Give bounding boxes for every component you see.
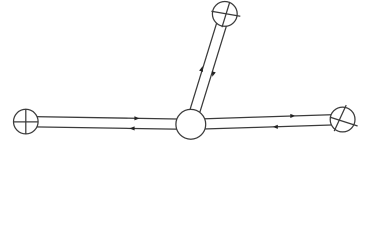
cross in left node: horizontal bar — [14, 121, 39, 123]
arrowhead on edge C upper line, pointing right toward right node — [290, 114, 295, 118]
node: top terminal (crossed circle) — [212, 2, 237, 27]
node: center junction (plain circle) — [176, 109, 206, 139]
arrowhead on edge B right line, pointing down toward center node — [212, 71, 216, 77]
arrowhead on edge A upper line, pointing right toward center node — [134, 116, 139, 120]
wire: edge B right line, top node to center node — [196, 15, 230, 125]
diagram: star graph, central circle node with three crossed-circle terminals joined by double arrowed lines — [0, 0, 385, 165]
arrowhead on edge A lower line, pointing left toward left node — [129, 126, 134, 130]
wire: edge A upper line, left node to center node — [26, 117, 191, 120]
node: right terminal (crossed circle) — [330, 107, 355, 132]
wire: edge A lower line, center node to left node — [26, 127, 191, 130]
cross in right node: shallow bar — [330, 117, 358, 126]
wire: edge C upper line, center node to right node — [191, 114, 343, 119]
node: left terminal (crossed circle) — [13, 109, 38, 134]
cross in right node: steep bar — [334, 105, 346, 131]
arrowhead on edge C lower line, pointing left toward center node — [273, 125, 278, 129]
cross in left node: vertical bar — [25, 109, 27, 134]
arrowhead on edge B left line, pointing up toward top node — [199, 66, 203, 72]
wire: edge C lower line, right node to center node — [191, 125, 343, 130]
cross in top node: shallow bar — [211, 11, 240, 16]
wire: edge B left line, center node to top node — [186, 12, 220, 122]
cross in top node: steep bar — [222, 2, 230, 27]
